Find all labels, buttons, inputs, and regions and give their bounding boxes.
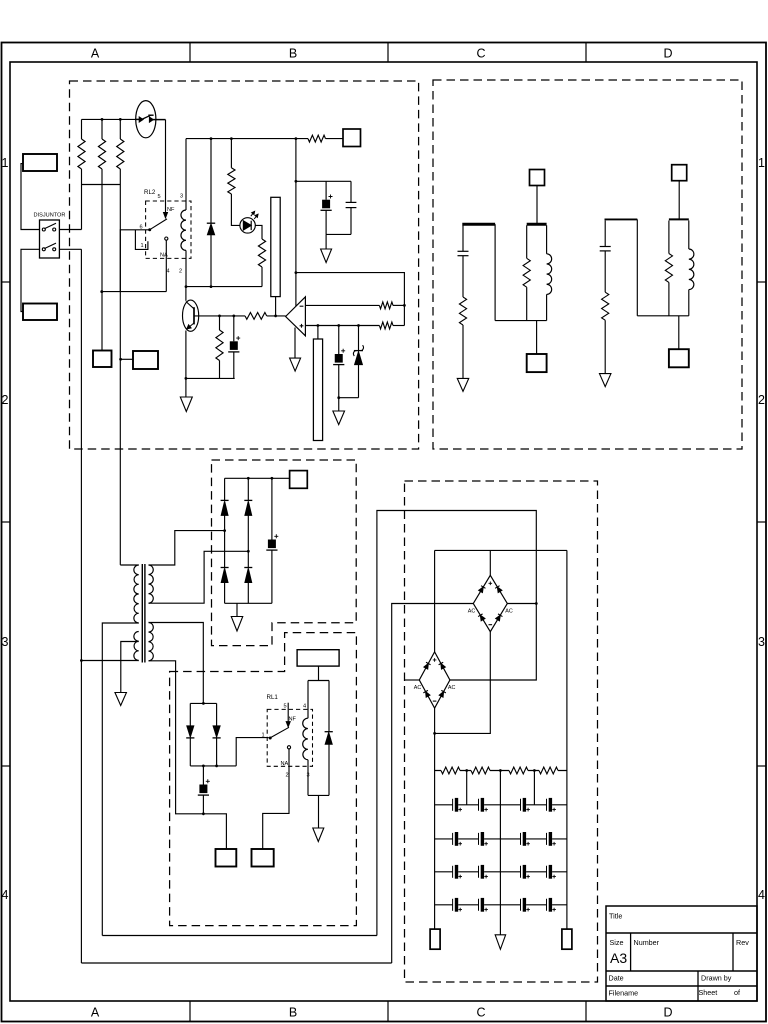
resistor R12 — [471, 767, 490, 774]
diode D1 — [210, 139, 212, 224]
wire (filter 2) — [678, 316, 680, 349]
wire — [435, 804, 567, 806]
wire — [82, 184, 121, 186]
wire — [102, 935, 377, 937]
relay RL2 dashed box — [146, 201, 191, 258]
capacitor C18 — [546, 866, 548, 878]
wire — [59, 248, 81, 250]
wire — [326, 233, 351, 235]
module box M1 — [297, 650, 339, 666]
ground — [294, 328, 296, 359]
capacitor C17 — [520, 866, 522, 878]
inductor block left edge with resistor (filter 2) — [668, 221, 670, 254]
load block FL1 top — [318, 666, 320, 680]
capacitor C3 — [233, 316, 235, 341]
wire — [305, 325, 379, 327]
svg-text:RL2: RL2 — [144, 189, 156, 196]
connector J5 — [133, 351, 158, 369]
wire — [236, 738, 269, 766]
wire — [165, 120, 167, 213]
resistor R1 — [81, 119, 83, 139]
svg-text:D: D — [663, 47, 672, 61]
svg-text:2: 2 — [2, 393, 9, 407]
resistor R9 — [379, 302, 393, 309]
transformer T1 core — [141, 564, 143, 663]
capacitor C12 — [478, 833, 480, 845]
load block FL1 — [308, 681, 329, 796]
wire — [435, 632, 491, 734]
wire (filter 1) — [495, 320, 546, 322]
wire (filter 2) — [678, 181, 680, 220]
relay RL2 armature — [148, 228, 151, 231]
svg-text:A3: A3 — [610, 950, 627, 966]
resistor R7 — [219, 316, 221, 330]
row separator ticks — [2, 281, 11, 283]
wire — [393, 325, 404, 327]
ground (filter 2) — [599, 374, 611, 387]
breaker contact lower — [42, 248, 45, 251]
svg-text:A: A — [91, 47, 100, 61]
wire (filter 2) — [604, 221, 606, 247]
svg-text:AC: AC — [414, 685, 422, 691]
diode D6 — [244, 567, 252, 569]
resistor R14 — [539, 767, 558, 774]
svg-text:4: 4 — [758, 888, 765, 902]
resistor R5 — [230, 139, 232, 168]
dashed block border - output filters section — [433, 80, 742, 449]
svg-text:1: 1 — [262, 733, 265, 739]
wire — [149, 531, 225, 565]
connector J (filter 1) — [527, 354, 547, 372]
capacitor C10 — [546, 799, 548, 811]
terminal bar (filter 1) — [462, 223, 495, 226]
ground — [185, 378, 187, 397]
wire — [81, 660, 138, 662]
capacitor C19 — [452, 899, 454, 911]
capacitor C4 — [338, 326, 340, 355]
wire — [149, 661, 227, 849]
svg-text:1: 1 — [2, 156, 9, 170]
svg-text:3: 3 — [180, 194, 183, 200]
svg-text:3: 3 — [758, 635, 765, 649]
resistor R2 — [101, 119, 103, 139]
capacitor C16 — [478, 866, 480, 878]
resistor R11 — [441, 767, 460, 774]
wire — [296, 273, 405, 326]
svg-text:AC: AC — [505, 609, 513, 615]
svg-text:AC: AC — [448, 685, 456, 691]
wire — [377, 511, 536, 936]
wire (filter 1) — [494, 224, 496, 320]
capacitor C20 — [478, 899, 480, 911]
zener diode DZ1 — [358, 326, 360, 351]
wire — [296, 180, 351, 182]
svg-text:2: 2 — [179, 269, 182, 275]
svg-text:A: A — [91, 1006, 100, 1020]
wire — [186, 286, 262, 288]
svg-text:Number: Number — [634, 938, 660, 947]
wire — [120, 564, 138, 566]
svg-text:5: 5 — [158, 194, 161, 200]
capacitor C8 — [478, 799, 480, 811]
column separator ticks — [189, 43, 191, 63]
resistor R3 — [119, 119, 121, 139]
svg-text:2: 2 — [286, 773, 289, 779]
wire — [165, 240, 167, 291]
terminal bar (filter 2) — [605, 218, 638, 220]
wire — [507, 603, 536, 605]
connector J6 — [290, 471, 308, 489]
wire — [435, 770, 567, 772]
resistor R10 — [379, 322, 393, 329]
bridge rectifier B2 — [419, 652, 450, 708]
wire (filter 1) — [462, 256, 464, 297]
transformer T1 secondary winding D — [149, 623, 154, 661]
resistor R8 — [245, 313, 267, 320]
capacitor C (filter 1) — [458, 250, 469, 252]
wire — [225, 602, 272, 604]
connector J10 — [562, 929, 572, 949]
connector J (filter 2) — [672, 165, 687, 181]
capacitor C13 — [520, 833, 522, 845]
wire — [121, 358, 133, 360]
wire — [186, 138, 308, 140]
diode D9 — [325, 731, 333, 733]
wire — [21, 249, 40, 311]
wire — [102, 623, 138, 936]
svg-text:D: D — [663, 1006, 672, 1020]
wire — [190, 702, 216, 704]
connector J2 — [23, 304, 57, 321]
wire — [102, 291, 167, 293]
connector J8 — [252, 849, 274, 867]
svg-text:Size: Size — [610, 938, 624, 947]
inductor block top bar (filter 1) — [527, 223, 547, 226]
svg-text:Drawn by: Drawn by — [701, 974, 732, 983]
wire — [435, 838, 567, 840]
svg-text:3: 3 — [2, 635, 9, 649]
wire — [263, 749, 289, 849]
wire — [434, 550, 436, 652]
ground — [325, 234, 327, 249]
wire — [149, 551, 249, 603]
wire (filter 1) — [536, 186, 538, 225]
wire — [393, 304, 404, 306]
wire — [466, 771, 468, 805]
transformer T1 primary winding B — [134, 632, 139, 661]
relay RL1 dashed box — [267, 709, 312, 766]
svg-text:of: of — [734, 988, 740, 997]
connector J1 — [23, 154, 57, 171]
wire — [435, 871, 567, 873]
capacitor C (filter 2) — [600, 246, 611, 248]
relay RL1 armature — [269, 737, 272, 740]
diode D5 — [247, 478, 249, 500]
inductor block right edge with coil (filter 1) — [546, 225, 548, 254]
svg-text:Date: Date — [609, 974, 624, 983]
wire — [81, 962, 391, 964]
inductor block left edge with resistor (filter 1) — [526, 225, 528, 258]
relay RL2 NA contact — [165, 237, 168, 240]
ground — [115, 693, 127, 706]
ground — [495, 935, 506, 950]
capacitor C15 — [452, 866, 454, 878]
capacitor C21 — [520, 899, 522, 911]
resistor R (filter 2) — [602, 292, 609, 320]
capacitor C14 — [546, 833, 548, 845]
wire — [489, 550, 491, 575]
wire — [225, 477, 290, 479]
wire — [190, 765, 236, 767]
transformer T1 secondary winding C — [149, 565, 154, 603]
LED D2 — [240, 218, 255, 233]
relay RL1 NA contact — [287, 746, 290, 749]
wire — [80, 249, 82, 963]
wire — [434, 708, 436, 929]
svg-text:4: 4 — [2, 888, 9, 902]
wire — [101, 185, 103, 351]
svg-text:Rev: Rev — [736, 938, 749, 947]
wire — [392, 604, 474, 964]
svg-text:NA: NA — [281, 761, 289, 767]
svg-text:B: B — [289, 1006, 297, 1020]
capacitor C9 — [520, 799, 522, 811]
svg-text:DISJUNTOR: DISJUNTOR — [34, 213, 66, 219]
svg-text:1: 1 — [758, 156, 765, 170]
svg-text:Title: Title — [609, 912, 622, 921]
diode D3 — [224, 478, 226, 500]
dashed block border - relay RL1 section — [170, 633, 357, 926]
resistor R (filter 1) — [459, 297, 466, 325]
svg-text:Sheet: Sheet — [699, 988, 718, 997]
test point TP1 — [275, 297, 277, 316]
wire — [120, 230, 149, 292]
dashed block border - bridge and RC ladder section — [405, 481, 598, 982]
diode D7 — [189, 703, 191, 726]
wire — [21, 164, 40, 230]
capacitor C5 — [271, 478, 273, 539]
connector J (filter 1) — [530, 170, 545, 186]
resistor R13 — [509, 767, 528, 774]
connector J4 — [93, 351, 112, 368]
inductor block top bar (filter 2) — [669, 218, 689, 220]
svg-text:NF: NF — [167, 207, 175, 213]
fuse-breaker F1 — [136, 101, 156, 138]
capacitor C11 — [452, 833, 454, 845]
capacitor C7 — [452, 799, 454, 811]
wire — [566, 550, 568, 929]
breaker contact upper — [42, 228, 45, 231]
connector J9 — [430, 929, 440, 949]
svg-text:1: 1 — [141, 243, 144, 249]
capacitor C2 — [350, 181, 352, 202]
relay RL1 NF contact — [287, 703, 289, 722]
relay RL2 NF contact — [164, 213, 168, 218]
svg-text:4: 4 — [167, 269, 170, 275]
bridge rectifier B1 — [473, 575, 507, 631]
wire — [405, 679, 420, 681]
svg-text:Filename: Filename — [609, 989, 639, 998]
wire — [499, 771, 501, 935]
ground — [338, 398, 340, 411]
dashed block border - rectifier section — [212, 460, 357, 646]
wire (filter 1) — [462, 325, 464, 378]
relay RL2 pin1 stub — [135, 230, 148, 250]
wire (filter 1) — [462, 225, 464, 251]
wire — [326, 138, 344, 140]
wire — [295, 139, 297, 307]
wire (filter 2) — [637, 315, 689, 317]
relay RL2 coil — [185, 201, 187, 210]
wire (filter 2) — [636, 219, 638, 315]
resistor R4 — [308, 135, 326, 142]
wire — [59, 229, 81, 231]
svg-text:C: C — [476, 1006, 485, 1020]
ground — [318, 795, 320, 828]
wire — [82, 118, 137, 120]
wire — [121, 642, 139, 693]
ground — [236, 603, 238, 616]
breaker DISJUNTOR box — [40, 220, 60, 258]
svg-text:4: 4 — [303, 704, 306, 710]
svg-text:C: C — [476, 47, 485, 61]
wire (filter 2) — [604, 251, 606, 292]
test point TP2 — [317, 326, 319, 340]
title block — [606, 906, 757, 1001]
capacitor C6 — [202, 766, 204, 785]
resistor R6 — [255, 225, 262, 239]
wire — [267, 315, 286, 317]
op-amp U1 — [286, 297, 306, 336]
wire — [119, 185, 121, 565]
capacitor C1 — [325, 181, 327, 199]
wire — [149, 623, 204, 704]
wire — [194, 315, 245, 317]
svg-text:AC: AC — [468, 609, 476, 615]
connector J7 — [216, 849, 237, 867]
wire — [247, 550, 250, 553]
wire — [223, 529, 226, 532]
inductor block right edge with coil (filter 2) — [688, 221, 690, 250]
wire — [435, 904, 567, 906]
wire — [186, 377, 235, 379]
diode D8 — [216, 703, 218, 726]
connector J3 — [343, 129, 361, 147]
transformer T1 primary winding A — [134, 565, 139, 623]
transistor Q1 — [185, 287, 187, 301]
wire (filter 2) — [604, 320, 606, 373]
wire — [305, 304, 379, 306]
diode D4 — [221, 567, 229, 569]
svg-text:2: 2 — [758, 393, 765, 407]
wire — [339, 397, 359, 399]
capacitor C22 — [546, 899, 548, 911]
connector J (filter 2) — [669, 349, 689, 367]
wire (filter 1) — [536, 321, 538, 354]
ground (filter 1) — [457, 378, 469, 391]
relay RL1 coil — [303, 718, 308, 760]
svg-text:RL1: RL1 — [267, 694, 279, 701]
svg-text:5: 5 — [284, 704, 287, 710]
dashed block border - power supply section — [70, 81, 419, 449]
wire — [435, 549, 567, 551]
svg-text:B: B — [289, 47, 297, 61]
